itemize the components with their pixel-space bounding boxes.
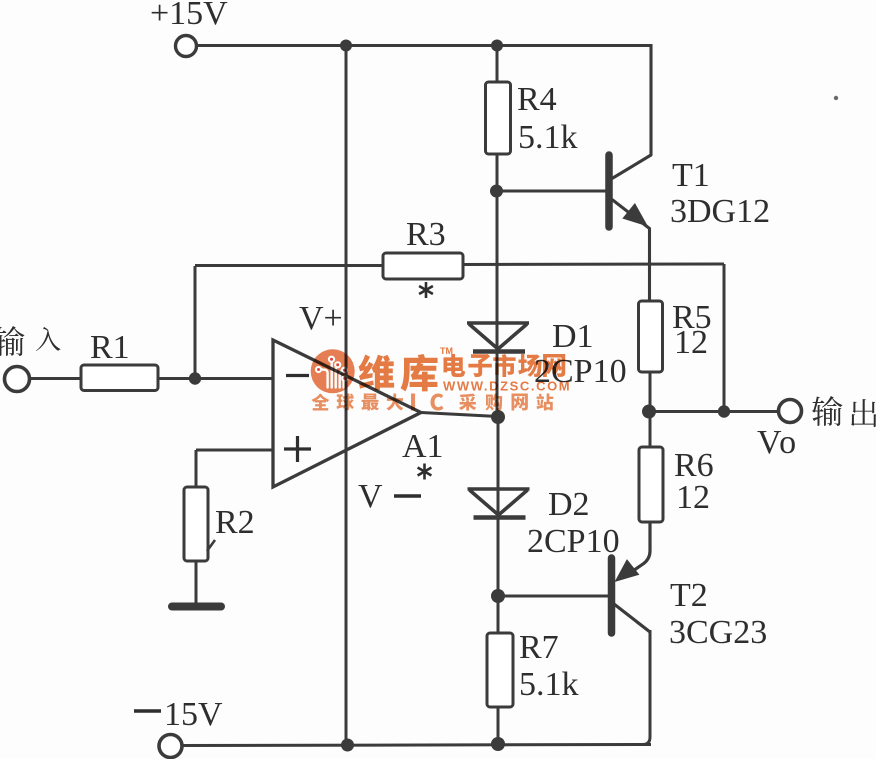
svg-text:R4: R4: [517, 81, 557, 118]
transistor T1 emitter arrow: [622, 203, 648, 227]
svg-text:TM: TM: [440, 346, 453, 356]
resistor R3: [383, 253, 463, 279]
watermark 站: [537, 394, 554, 411]
resistor R2: [184, 487, 208, 561]
svg-text:T2: T2: [670, 577, 708, 614]
wire op-amp plus input: [196, 449, 273, 452]
junction output node (R5/R6): [642, 405, 656, 419]
watermark 全: [312, 394, 330, 411]
svg-text:3DG12: 3DG12: [670, 193, 770, 230]
wire node B1 through D1 to output node: [496, 191, 499, 417]
junction node B2 (D2/R7/T2 base): [491, 589, 505, 603]
terminal output: [779, 400, 802, 423]
svg-text:R1: R1: [90, 329, 130, 366]
wire -15V bottom rail: [182, 745, 651, 746]
wire output node to terminal: [649, 410, 778, 413]
svg-text:Vo: Vo: [757, 424, 798, 461]
wire R4 to node B1: [496, 154, 499, 191]
watermark I: [411, 393, 415, 410]
resistor R5: [639, 301, 663, 372]
label R3 value *: [419, 282, 433, 298]
label output 输: [812, 396, 842, 426]
terminal +15V: [176, 36, 197, 57]
wire feedback right vertical: [723, 264, 726, 412]
wire to R2: [195, 450, 198, 488]
watermark 电: [444, 354, 466, 377]
op-amp A1 triangle: [273, 340, 421, 487]
wire input terminal to R1: [30, 377, 81, 380]
label output 出 (clipped): [851, 399, 876, 427]
label input 输 (clipped): [0, 326, 24, 356]
svg-text:15V: 15V: [164, 696, 223, 733]
transistor T1 emitter diagonal: [612, 200, 650, 303]
wire R2 to ground: [195, 561, 198, 604]
watermark 购: [485, 394, 502, 411]
svg-text:R2: R2: [215, 504, 255, 541]
watermark logo circle: [311, 349, 355, 393]
svg-text:A1: A1: [402, 428, 444, 465]
transistor T2 emitter arrow (PNP): [615, 559, 640, 582]
transistor T2 base bar: [608, 558, 616, 633]
resistor R2 adjust tick: [207, 540, 215, 551]
wire +15V to R4: [496, 46, 499, 83]
watermark 库: [400, 354, 437, 391]
wire op-amp output: [421, 413, 498, 417]
transistor T1 base bar: [605, 155, 613, 227]
watermark 大: [387, 393, 404, 410]
wire node B2 to R7: [497, 596, 500, 633]
wire node B2 to T2 base: [498, 595, 608, 598]
terminal -15V: [159, 735, 182, 758]
diode D1: [467, 323, 529, 352]
svg-text:3CG23: 3CG23: [669, 614, 767, 651]
svg-text:+15V: +15V: [150, 0, 228, 32]
svg-text:T1: T1: [672, 157, 710, 194]
watermark 网: [543, 354, 565, 377]
junction node B1 (R4/D1/T1 base): [490, 185, 503, 198]
wire feedback left vertical: [194, 266, 197, 379]
junction bottom rail / V line: [341, 739, 354, 752]
watermark 采: [459, 394, 476, 411]
watermark 子: [468, 354, 491, 377]
svg-text:V: V: [358, 478, 383, 515]
svg-text:5.1k: 5.1k: [519, 666, 579, 703]
wire node B1 to T1 base: [496, 190, 606, 193]
svg-text:WWW.DZSC.COM: WWW.DZSC.COM: [443, 379, 571, 394]
watermark 市: [493, 354, 515, 377]
transistor T2 emitter lead from R6: [624, 522, 650, 577]
junction top rail / R4: [491, 40, 503, 52]
svg-text:12: 12: [676, 479, 710, 516]
watermark C: [430, 393, 443, 410]
wire feedback to R3: [195, 264, 384, 267]
svg-text:V+: V+: [299, 300, 343, 337]
wire R1 to op-amp inverting input: [158, 377, 273, 380]
ground: [168, 603, 225, 611]
wire node through D2 to node B2: [497, 417, 500, 596]
watermark 球: [337, 394, 354, 411]
wire output node to R6: [649, 412, 652, 448]
svg-text:2CP10: 2CP10: [527, 523, 620, 560]
wire V supply vertical x=346: [345, 46, 348, 745]
resistor R7: [487, 633, 513, 707]
junction op-amp output / diode chain: [491, 410, 505, 424]
watermark 最: [362, 393, 379, 410]
wire +15V top rail: [196, 44, 651, 47]
svg-text:12: 12: [674, 324, 708, 361]
op-amp A1 plus input sign: [284, 436, 311, 462]
svg-text:D1: D1: [552, 318, 594, 355]
junction R1 / feedback: [189, 372, 201, 384]
label input 入: [36, 327, 61, 351]
resistor R4: [486, 82, 511, 154]
wire T2 collector down to bottom rail: [643, 630, 650, 745]
diode D2: [468, 489, 530, 518]
watermark 场: [518, 354, 541, 377]
transistor T2 collector diagonal: [614, 604, 650, 632]
svg-text:5.1k: 5.1k: [518, 119, 578, 156]
terminal input: [5, 367, 30, 392]
scan speck: [834, 96, 838, 100]
wire R5 to output node: [649, 372, 652, 412]
watermark 网: [511, 394, 527, 411]
junction top rail / V+ line: [340, 40, 352, 52]
junction output / feedback: [718, 405, 730, 417]
label A1 value *: [418, 464, 432, 480]
transistor T1 collector (wire from top rail): [612, 44, 651, 179]
wire R7 to bottom rail: [497, 707, 500, 745]
resistor R6: [639, 447, 663, 522]
svg-text:D2: D2: [548, 486, 590, 523]
label -15V: [134, 696, 223, 733]
svg-text:R3: R3: [406, 216, 446, 253]
svg-text:R7: R7: [519, 629, 559, 666]
wire R3 to feedback right vertical: [462, 263, 724, 267]
op-amp A1 minus input sign: [286, 374, 309, 377]
junction bottom rail / R7: [491, 737, 505, 751]
resistor R1: [81, 365, 158, 391]
watermark 维: [359, 355, 395, 391]
